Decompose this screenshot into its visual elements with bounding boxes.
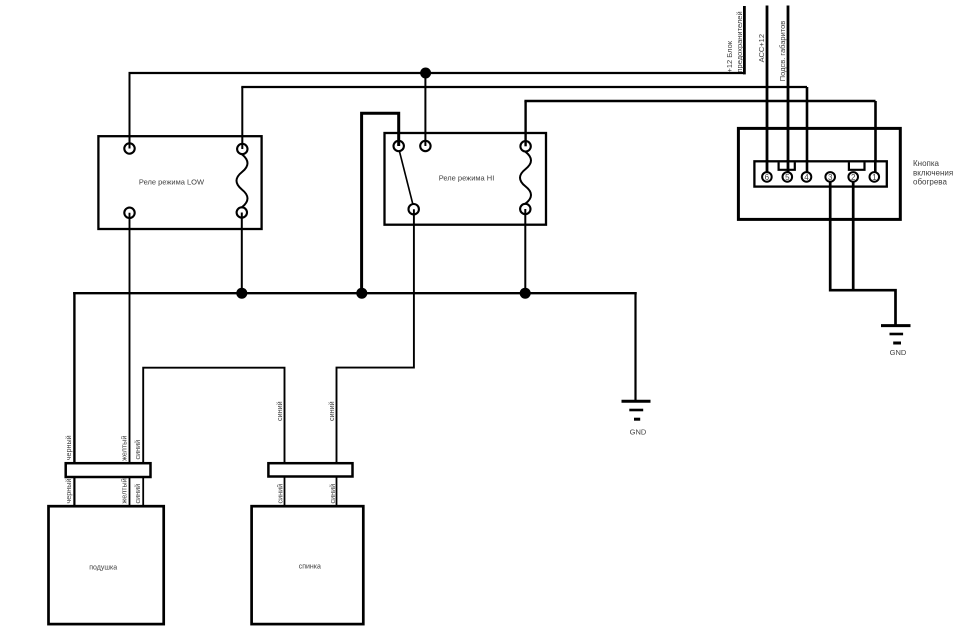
wire: riser from bus1 down to relay LOW pin 86 (top-left) (129, 73, 131, 149)
node: junction ground bus / relay HI coil bottom (520, 288, 531, 299)
wire: parking-lights illumination lead down to switch pin 5 (787, 6, 790, 176)
svg-text:6: 6 (765, 173, 770, 182)
wire: bus3 stub into pin 1 (874, 160, 877, 177)
relay HI switch arm (diagonal contact) (400, 152, 413, 205)
pin 2 circle (848, 172, 858, 182)
wire: blue link cushion connector to backrest connector (143, 368, 284, 464)
wire: riser from bus3 down to relay HI coil top (524, 101, 526, 146)
svg-text:3: 3 (828, 173, 833, 182)
svg-text:5: 5 (785, 173, 790, 182)
wire: relay LOW coil bottom down to ground bus (241, 213, 243, 294)
wire: ground bus horizontal (73, 292, 637, 294)
label: Кнопка включения обогрева (913, 159, 953, 187)
relay U2 box: Реле режима HI (385, 133, 547, 225)
wire: switch pin 2 down to GND run (852, 182, 855, 291)
pin 5 circle (783, 172, 793, 182)
svg-text:синий: синий (133, 484, 142, 504)
pin 6 circle (762, 172, 772, 182)
wire: black stub connector bar to cushion box (73, 477, 75, 507)
switch S1 outer box (Кнопка включения обогрева) (738, 128, 900, 219)
wire: relay HI common loop up-left-down to ground bus (362, 113, 399, 293)
wire: riser from bus1 junction down to relay HI top pin (424, 73, 426, 146)
svg-text:синий: синий (327, 401, 336, 421)
svg-text:2: 2 (851, 173, 856, 182)
wire: ground bus drop to GND symbol (634, 292, 636, 401)
ground symbol right: bar 2 (890, 333, 904, 336)
ground symbol left: bar 2 (629, 409, 643, 412)
ground symbol left: bar 3 (634, 418, 640, 421)
wire: relay HI coil bottom down to ground bus (524, 209, 526, 293)
connector bar of backrest (спинка) (268, 463, 352, 476)
relay LOW coil (wavy) (237, 154, 248, 207)
wire: bus3 horizontal (524, 100, 875, 102)
relay HI pin circle top-second (feed) (420, 141, 430, 151)
node: junction ground bus / relay LOW coil bottom (236, 288, 247, 299)
svg-text:4: 4 (804, 173, 809, 182)
connector keying notch over pin 2 (849, 162, 865, 169)
wire: bus2 stub into pin 4 (806, 160, 809, 177)
svg-text:желтый: желтый (119, 436, 128, 461)
wire: +12 fuse-box lead vertical (743, 6, 746, 74)
ground symbol right: bar 1 (881, 324, 911, 327)
switch connector strip box (754, 161, 886, 186)
wire: illumination stub into pin 5 (787, 160, 790, 177)
svg-text:Подсв. габаритов: Подсв. габаритов (778, 21, 787, 82)
relay HI pin circle bottom-right (coil) (520, 204, 530, 214)
relay HI pin circle top-left (common) (394, 141, 404, 151)
connector keying notch over pin 5 (779, 162, 795, 169)
wire: bus3 drop to switch pin 1 (874, 101, 877, 175)
relay LOW pin circle bottom-right (coil) (237, 207, 247, 217)
wire: black ground lead down to cushion connector (73, 292, 75, 464)
wire: ACC+12 lead down to switch pin 6 (766, 6, 769, 176)
wire: yellow lead from relay LOW switch out down to cushion connector (129, 213, 131, 464)
connector bar of cushion (подушка) (66, 463, 151, 477)
pin 1 circle (870, 172, 880, 182)
svg-text:GND: GND (630, 428, 647, 437)
heater element box: спинка (backrest) (252, 506, 364, 624)
svg-text:GND: GND (890, 348, 907, 357)
svg-text:синий: синий (133, 440, 142, 460)
svg-text:предохранителей: предохранителей (735, 11, 744, 72)
svg-text:включения: включения (913, 168, 953, 177)
ground symbol left: bar 1 (622, 400, 651, 403)
wire: bus2 drop to switch pin 4 (806, 87, 809, 175)
svg-text:спинка: спинка (299, 564, 321, 571)
label: +12 Блок предохранителей (rotated) (725, 11, 744, 72)
wire: blue stub connector bar to backrest box (right) (336, 477, 338, 508)
relay HI coil (wavy) (520, 152, 531, 204)
svg-text:черный: черный (64, 479, 73, 504)
wire: bus1 (+12 feed) horizontal (129, 72, 745, 74)
pin 4 circle (802, 172, 812, 182)
pin 3 circle (825, 172, 835, 182)
svg-text:синий: синий (276, 484, 285, 504)
svg-text:+12 Блок: +12 Блок (725, 40, 734, 72)
svg-text:Реле режима LOW: Реле режима LOW (139, 178, 205, 187)
svg-text:черный: черный (64, 435, 73, 460)
svg-text:подушка: подушка (89, 565, 117, 572)
svg-text:обогрева: обогрева (913, 178, 947, 187)
relay LOW pin circle bottom-left (124, 208, 134, 218)
svg-text:желтый: желтый (119, 478, 128, 503)
svg-text:Реле режима HI: Реле режима HI (439, 174, 495, 183)
svg-text:Кнопка: Кнопка (913, 159, 940, 168)
wire: blue stub connector bar to cushion box (142, 477, 144, 507)
wire: blue stub connector bar to backrest box (left) (284, 477, 286, 508)
wire: ACC stub into pin 6 (766, 160, 769, 177)
svg-text:1: 1 (872, 173, 877, 182)
heater element box: подушка (cushion) (49, 506, 164, 624)
svg-text:синий: синий (275, 401, 284, 421)
relay HI pin circle bottom-middle (NO contact) (409, 204, 419, 214)
wire: relay HI NO contact down then left to backrest connector (blue) (337, 209, 414, 464)
svg-text:АСС+12: АСС+12 (757, 34, 766, 62)
node: junction ground bus / relay HI common loop (356, 288, 367, 299)
wire: yellow stub connector bar to cushion box (129, 477, 131, 507)
wire: bus2 horizontal (241, 86, 807, 88)
node: junction bus1 / relay HI feed (420, 68, 431, 79)
relay U1 box: Реле режима LOW (98, 136, 261, 229)
relay LOW pin circle top-left (124, 143, 134, 153)
relay HI pin circle top-right (coil) (520, 141, 530, 151)
ground symbol right: bar 3 (893, 342, 901, 345)
relay LOW pin circle top-right (coil) (237, 144, 247, 154)
wire: riser from bus2 down to relay LOW coil top (top-right) (241, 87, 243, 149)
wire: switch pin 3 to right GND (830, 182, 895, 326)
